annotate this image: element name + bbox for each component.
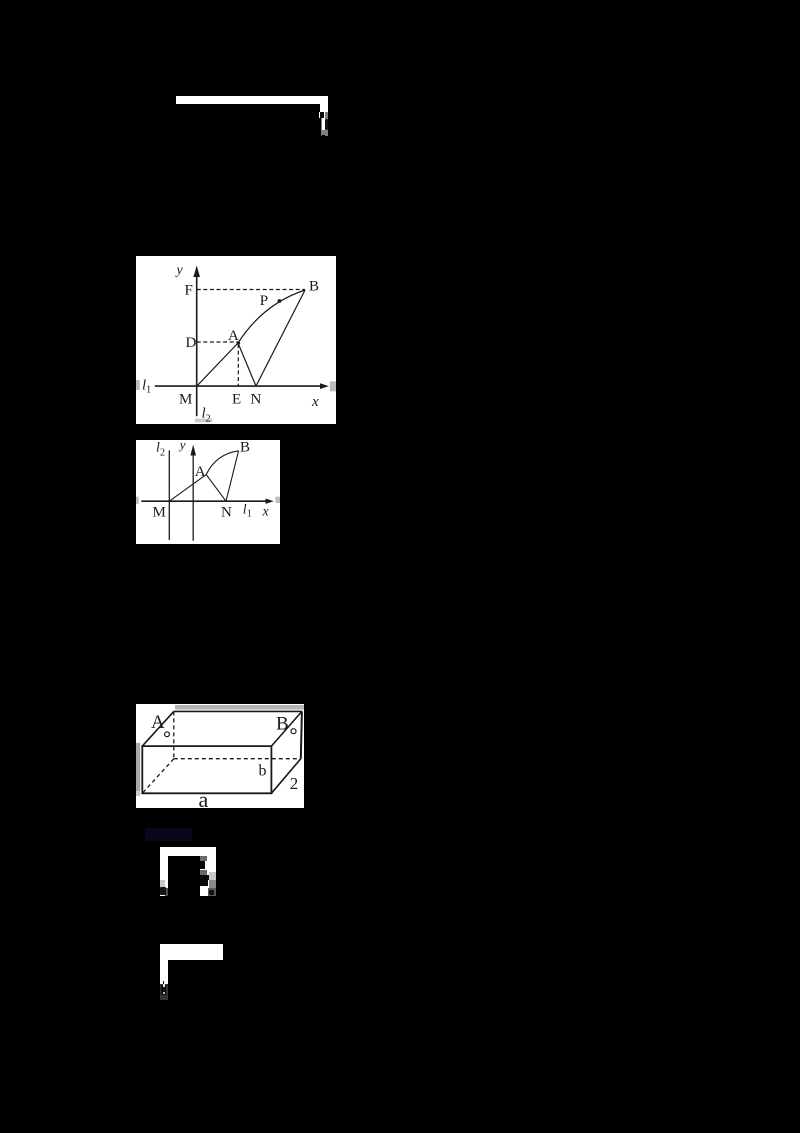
svg-text:N: N: [251, 391, 262, 407]
svg-text:B: B: [240, 440, 250, 456]
svg-text:N: N: [221, 505, 232, 521]
svg-text:B: B: [276, 713, 289, 734]
svg-text:2: 2: [290, 774, 299, 793]
svg-text:F: F: [185, 282, 193, 298]
svg-text:2: 2: [160, 448, 165, 459]
svg-text:D: D: [186, 335, 197, 351]
svg-text:M: M: [179, 391, 192, 407]
svg-text:y: y: [178, 440, 186, 452]
svg-text:A: A: [228, 328, 239, 344]
svg-text:b: b: [259, 762, 267, 779]
svg-text:x: x: [311, 394, 319, 410]
svg-text:P: P: [260, 293, 268, 309]
svg-text:2: 2: [206, 414, 211, 425]
svg-text:x: x: [262, 505, 270, 520]
svg-text:1: 1: [247, 509, 252, 520]
svg-text:A: A: [195, 464, 206, 480]
svg-text:a: a: [199, 787, 209, 808]
svg-text:A: A: [151, 712, 165, 733]
svg-text:y: y: [175, 263, 184, 278]
svg-text:M: M: [153, 505, 166, 521]
svg-text:1: 1: [146, 385, 151, 396]
svg-text:E: E: [232, 391, 241, 407]
svg-text:B: B: [309, 279, 319, 295]
